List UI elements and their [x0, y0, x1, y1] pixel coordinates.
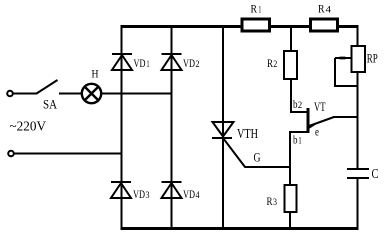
terminal lower AC	[8, 151, 14, 157]
wire left bridge rail	[121, 25, 123, 229]
thyristor VTH	[212, 122, 234, 138]
svg-text:VD: VD	[183, 56, 195, 70]
wire thyristor rail	[222, 25, 224, 229]
diode VD4	[162, 182, 182, 198]
diode VD3	[111, 182, 131, 198]
wire lamp to bridge	[101, 93, 173, 95]
wire right rail lower	[357, 178, 359, 229]
switch SA	[37, 80, 58, 94]
svg-text:R: R	[267, 56, 273, 70]
diode VD2	[162, 54, 182, 70]
svg-text:1: 1	[258, 5, 261, 15]
wire emitter to rail	[333, 116, 359, 118]
wire R2 to b2	[291, 78, 308, 112]
svg-text:VD: VD	[183, 187, 195, 201]
wire right rail middle	[357, 71, 359, 170]
svg-text:VTH: VTH	[237, 127, 258, 142]
diode VD1	[112, 54, 132, 70]
svg-text:R: R	[318, 2, 325, 16]
svg-text:e: e	[315, 125, 319, 139]
svg-text:R: R	[267, 194, 273, 208]
svg-text:1: 1	[147, 59, 150, 69]
wire R2 branch	[290, 25, 292, 52]
svg-text:b: b	[293, 133, 298, 147]
wire bottom bus	[121, 227, 359, 230]
wire lower AC lead	[15, 153, 123, 155]
capacitor C	[347, 169, 369, 178]
svg-text:RP: RP	[367, 51, 378, 66]
resistor R4	[311, 19, 338, 31]
svg-text:3: 3	[146, 190, 150, 200]
svg-text:H: H	[92, 67, 99, 81]
lamp H	[82, 84, 101, 103]
svg-text:~220V: ~220V	[10, 120, 47, 135]
resistor R1	[242, 19, 270, 31]
terminal upper AC	[7, 91, 13, 97]
transistor VT	[308, 108, 334, 133]
svg-text:VD: VD	[134, 56, 146, 70]
wire upper AC lead	[14, 93, 38, 95]
svg-text:C: C	[372, 167, 379, 182]
svg-text:1: 1	[298, 136, 302, 146]
svg-text:3: 3	[273, 197, 277, 207]
svg-text:VD: VD	[133, 187, 145, 201]
wire switch to lamp	[59, 93, 82, 95]
svg-text:R: R	[251, 2, 258, 16]
svg-text:4: 4	[326, 5, 332, 15]
svg-text:VT: VT	[314, 99, 326, 114]
svg-text:2: 2	[298, 100, 302, 110]
resistor R2	[284, 51, 297, 79]
wire RP wiper loop	[335, 58, 359, 86]
wire b1 to R3	[290, 132, 308, 186]
wire right bridge rail	[171, 25, 173, 229]
potentiometer RP	[335, 46, 365, 72]
svg-text:SA: SA	[43, 97, 58, 112]
wire right rail upper	[357, 25, 359, 47]
svg-text:G: G	[254, 150, 261, 165]
wire R3 to bottom bus	[289, 211, 291, 229]
wire gate lead	[223, 138, 291, 167]
svg-text:4: 4	[196, 190, 200, 200]
svg-text:2: 2	[273, 59, 277, 69]
svg-text:2: 2	[196, 59, 200, 69]
wire top bus	[121, 25, 359, 28]
resistor R3	[285, 185, 297, 212]
